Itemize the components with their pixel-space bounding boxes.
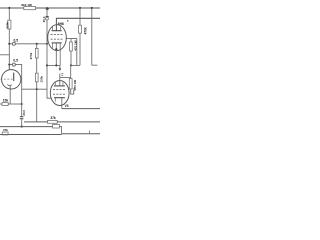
tube V2 pin stub top left (52, 26, 54, 30)
svg-text:470k: 470k (29, 52, 33, 59)
wire x21.7 down to capacitor C4 (21, 89, 23, 117)
svg-text:47k: 47k (3, 128, 8, 132)
wire bus L1 left part (24, 121, 48, 123)
resistor R11 body on bottom rail (2, 132, 8, 135)
node junction dot C on top rail (79, 7, 81, 9)
resistor R4 body on x36.7 (35, 73, 38, 82)
tube V3 plate pin up stub (59, 74, 61, 86)
wire bottom rail right (62, 133, 100, 135)
tube V3 pin stub top left (54, 82, 56, 86)
ground arrow (59, 68, 62, 71)
wire from R2 down to tube V1 top (8, 29, 10, 70)
wire resistor R5 top lead from plate wire (70, 39, 72, 42)
tube V1 top pin stub (8, 65, 10, 70)
wire R3 to R4 (36, 58, 38, 73)
resistor R6 body top right (79, 25, 82, 33)
wire cathode link y89.2 (22, 88, 47, 90)
tube V3 plate bar top (54, 85, 65, 87)
tube V3 plate bar bottom (54, 97, 65, 99)
tube V3 grid dashes row 2 (53, 93, 66, 95)
tube V3 cathode pin down (61, 98, 63, 109)
tube V2 grid dashes row 2 (51, 38, 63, 40)
svg-text:0,5: 0,5 (14, 38, 19, 42)
capacitor C1 body (12, 42, 15, 45)
wire coupling line y43.8 right part (15, 43, 47, 45)
svg-text:10k: 10k (3, 98, 9, 102)
wire top supply rail left segment (0, 7, 24, 9)
wire vertical from node A to resistor R2 (8, 8, 10, 20)
svg-text:100k: 100k (39, 76, 43, 83)
tube V2 pin stub bottom right (59, 43, 61, 66)
node dot x56.3 y65.4 (55, 64, 57, 66)
wire C4 to ground rail (21, 119, 23, 127)
node dot x71 y65.4 (70, 64, 72, 66)
capacitor C4 plates (20, 117, 24, 119)
wire 10k line left edge (0, 103, 2, 105)
svg-text:20,0: 20,0 (22, 110, 26, 116)
resistor R3 body on x36.7 (35, 48, 38, 58)
svg-text:220k: 220k (5, 22, 9, 29)
wire L2 right lead corner down (59, 127, 61, 134)
tube V2 cathode pin down to node (55, 43, 57, 66)
capacitor C2 body (12, 63, 15, 66)
wire second rail with corner down to tube V2 plate (56, 18, 100, 30)
capacitor C3 electrolytic circle (46, 17, 49, 20)
node junction dot B on top rail (46, 7, 49, 10)
svg-text:37k: 37k (50, 116, 56, 120)
wire node row y65.4 right (71, 64, 80, 66)
tube V3 pin stub bottom left (54, 98, 56, 102)
resistor R2 body (8, 20, 11, 29)
node dot x21.7 y104 (21, 103, 23, 105)
tube V2 pin stub bottom left (52, 43, 54, 49)
resistor R9 37k body (48, 120, 58, 123)
wire from node D down and out right (92, 8, 98, 65)
tube V3 grid dashes row 1 (53, 88, 66, 90)
resistor R10 body on L2 (53, 124, 60, 128)
wire top supply rail right segment (36, 7, 100, 9)
resistor R5 body (70, 42, 73, 51)
tube V1 plate bar (13, 73, 15, 81)
node dot x21.7 y126.6 (21, 126, 23, 128)
resistor R8 10k body (2, 103, 8, 106)
terminal tick marks (73, 88, 75, 90)
wire R3 top lead (36, 44, 38, 49)
wire cathode bus y108.6 to right edge (62, 108, 100, 110)
tube V2 plate bar bottom (52, 42, 62, 44)
svg-text:20,0: 20,0 (42, 16, 46, 22)
svg-text:a: a (67, 19, 69, 22)
stub on bottom rail (89, 130, 91, 133)
wire ground bus L2 left part (0, 126, 53, 128)
svg-text:470 1W: 470 1W (73, 40, 77, 51)
wire bottom rail left (0, 134, 62, 136)
svg-text:6Н8: 6Н8 (58, 22, 64, 26)
tube V2 pin stub top right (60, 26, 62, 30)
node junction dot D on top rail (91, 7, 93, 9)
wire tube V2 plate out to right (66, 39, 77, 66)
tube V2 grid dashes row 1 (51, 33, 63, 35)
node dot on y43.8 at x9.3 (8, 43, 10, 45)
tube V2 plate bar top (52, 30, 62, 32)
tube V3 envelope (50, 81, 69, 106)
wire bus L1 right part (57, 121, 100, 123)
wire from C3 down along tube V2 left side to corner into V3 grid (47, 20, 51, 98)
svg-text:8k3 1W: 8k3 1W (21, 3, 32, 7)
wire R4 down to bottom bus L1 (36, 82, 38, 122)
wire coupling line y64.6 left part (9, 64, 12, 66)
wire R6 bottom lead down to node row (79, 33, 81, 65)
node dot under tube V2 (55, 48, 57, 50)
tube V1 envelope (2, 70, 21, 89)
wire node C down to R6 (79, 8, 81, 25)
wire stub left edge at y55 (0, 54, 9, 56)
wire 10k line to node (8, 103, 22, 105)
node dot on y43.8 at x47 (46, 43, 48, 45)
wire grid feed from node B down to capacitor C3 (46, 8, 48, 16)
node dot x36.7 y89.2 (36, 88, 38, 90)
svg-text:470k: 470k (84, 27, 88, 34)
svg-text:470 1W: 470 1W (73, 80, 77, 91)
wire node row y65.4 (47, 64, 60, 66)
ground stub (59, 65, 61, 68)
wire R5 bottom lead to node (70, 51, 72, 65)
node dot on y64.6 at x9.3 (8, 64, 10, 66)
node dot on y43.8 at x36.7 (36, 43, 38, 45)
wire coupling line y43.8 left part (9, 43, 12, 45)
wire coupling line y64.6 to corner down right of V1 (15, 65, 21, 90)
node dot x47 y65.4 (46, 64, 48, 66)
tube V3 pin stub top right (62, 82, 64, 86)
node junction dot A on top rail (8, 7, 10, 9)
capacitor C3 plate (46, 16, 49, 18)
tube V1 cathode pin down (9, 86, 11, 104)
wire V3 plate to R7 lead (60, 76, 71, 78)
wire resistor R7 top lead from node (70, 65, 72, 78)
wire R7 bottom lead with terminal stub (71, 89, 74, 94)
resistor R7 body (69, 79, 72, 89)
resistor R1 8k3 1W body (24, 7, 36, 10)
tube V1 grid dashed input line (1, 78, 14, 80)
svg-text:V3: V3 (65, 104, 69, 108)
tube V1 cathode hook (7, 84, 11, 85)
plate pin tick marks (61, 74, 63, 76)
svg-text:0,5: 0,5 (13, 59, 18, 63)
tube V2 envelope (48, 25, 67, 51)
